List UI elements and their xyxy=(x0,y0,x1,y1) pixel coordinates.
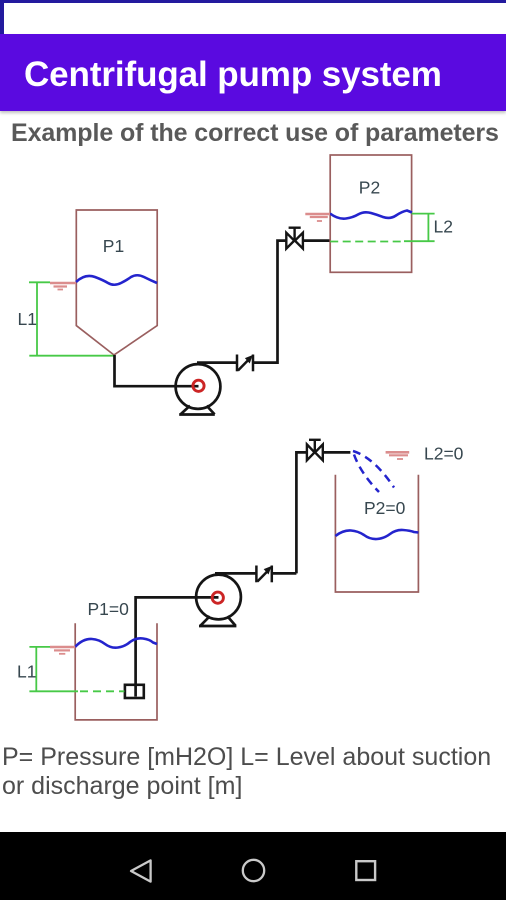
app bar xyxy=(0,34,506,111)
pump P-1 impeller eye xyxy=(193,380,204,391)
wire gate valve V1 to tank P2 xyxy=(303,239,330,242)
nav back triangle xyxy=(131,860,151,881)
frame left border xyxy=(0,0,4,34)
pump P-1 casing xyxy=(176,364,221,409)
check valve CV2 xyxy=(256,566,271,583)
tank P1 xyxy=(76,210,157,355)
level marker tank P2 xyxy=(305,214,330,221)
foot valve strainer xyxy=(125,685,144,698)
gate valve V1 xyxy=(286,228,303,249)
discharge reference dashed line in tank P2 xyxy=(330,241,405,243)
wire suction pipe 1 into pump xyxy=(175,385,199,388)
svg-text:L1: L1 xyxy=(17,662,36,682)
check valve CV1 xyxy=(237,355,253,372)
water level wave tank P1 xyxy=(76,275,157,285)
nav recents square xyxy=(356,861,375,880)
wire riser pipe 2 to gate valve V2 xyxy=(296,452,307,573)
water level wave tank D2-right xyxy=(335,530,418,539)
pump P-2 casing xyxy=(196,575,241,620)
pump P-2 impeller eye xyxy=(212,592,223,603)
dimension L1 (diagram 2) xyxy=(29,647,78,691)
pump P-1 base xyxy=(179,406,215,415)
svg-text:P2=0: P2=0 xyxy=(364,498,406,518)
heading xyxy=(11,119,499,148)
svg-text:P1=0: P1=0 xyxy=(88,599,130,619)
foot valve pipe stub xyxy=(134,685,137,697)
water level wave tank D2-left xyxy=(75,638,157,647)
nav home circle xyxy=(243,860,264,881)
level marker tank P1 xyxy=(50,283,76,290)
wire gate valve V2 outlet xyxy=(323,451,351,454)
navigation bar xyxy=(0,832,506,900)
wire check valve CV2 to riser xyxy=(272,572,297,575)
pump P-2 base xyxy=(199,616,236,626)
dimension L1 (diagram 1) xyxy=(29,282,114,355)
svg-text:P2: P2 xyxy=(359,178,380,198)
level marker tank D2-left xyxy=(50,647,75,654)
tank D2-right (open top) xyxy=(335,475,418,592)
svg-text:L2: L2 xyxy=(434,217,453,237)
frame top border xyxy=(0,0,506,3)
water level wave tank P2 xyxy=(330,211,412,219)
wire discharge pipe 1 (pump to check valve) xyxy=(197,361,237,364)
wire suction pipe 2 xyxy=(136,597,219,689)
svg-text:L1: L1 xyxy=(18,309,37,329)
wire suction pipe 1 xyxy=(115,355,177,386)
tank D2-left (open top) xyxy=(75,623,157,720)
gate valve V2 xyxy=(307,440,323,461)
tank P2 xyxy=(330,155,411,272)
svg-text:P1: P1 xyxy=(103,236,124,256)
dimension L2 (diagram 1) xyxy=(404,214,435,242)
suction reference dashed line (diagram 2) xyxy=(80,690,124,692)
caption xyxy=(2,743,506,802)
svg-text:L2=0: L2=0 xyxy=(424,444,464,464)
level marker at discharge (L2=0) xyxy=(386,452,410,459)
wire discharge pipe 2 (pump to check valve) xyxy=(215,572,256,575)
free discharge spray (dashed) xyxy=(353,451,394,492)
wire discharge pipe 1 (check valve to riser and gate valve) xyxy=(253,241,286,363)
